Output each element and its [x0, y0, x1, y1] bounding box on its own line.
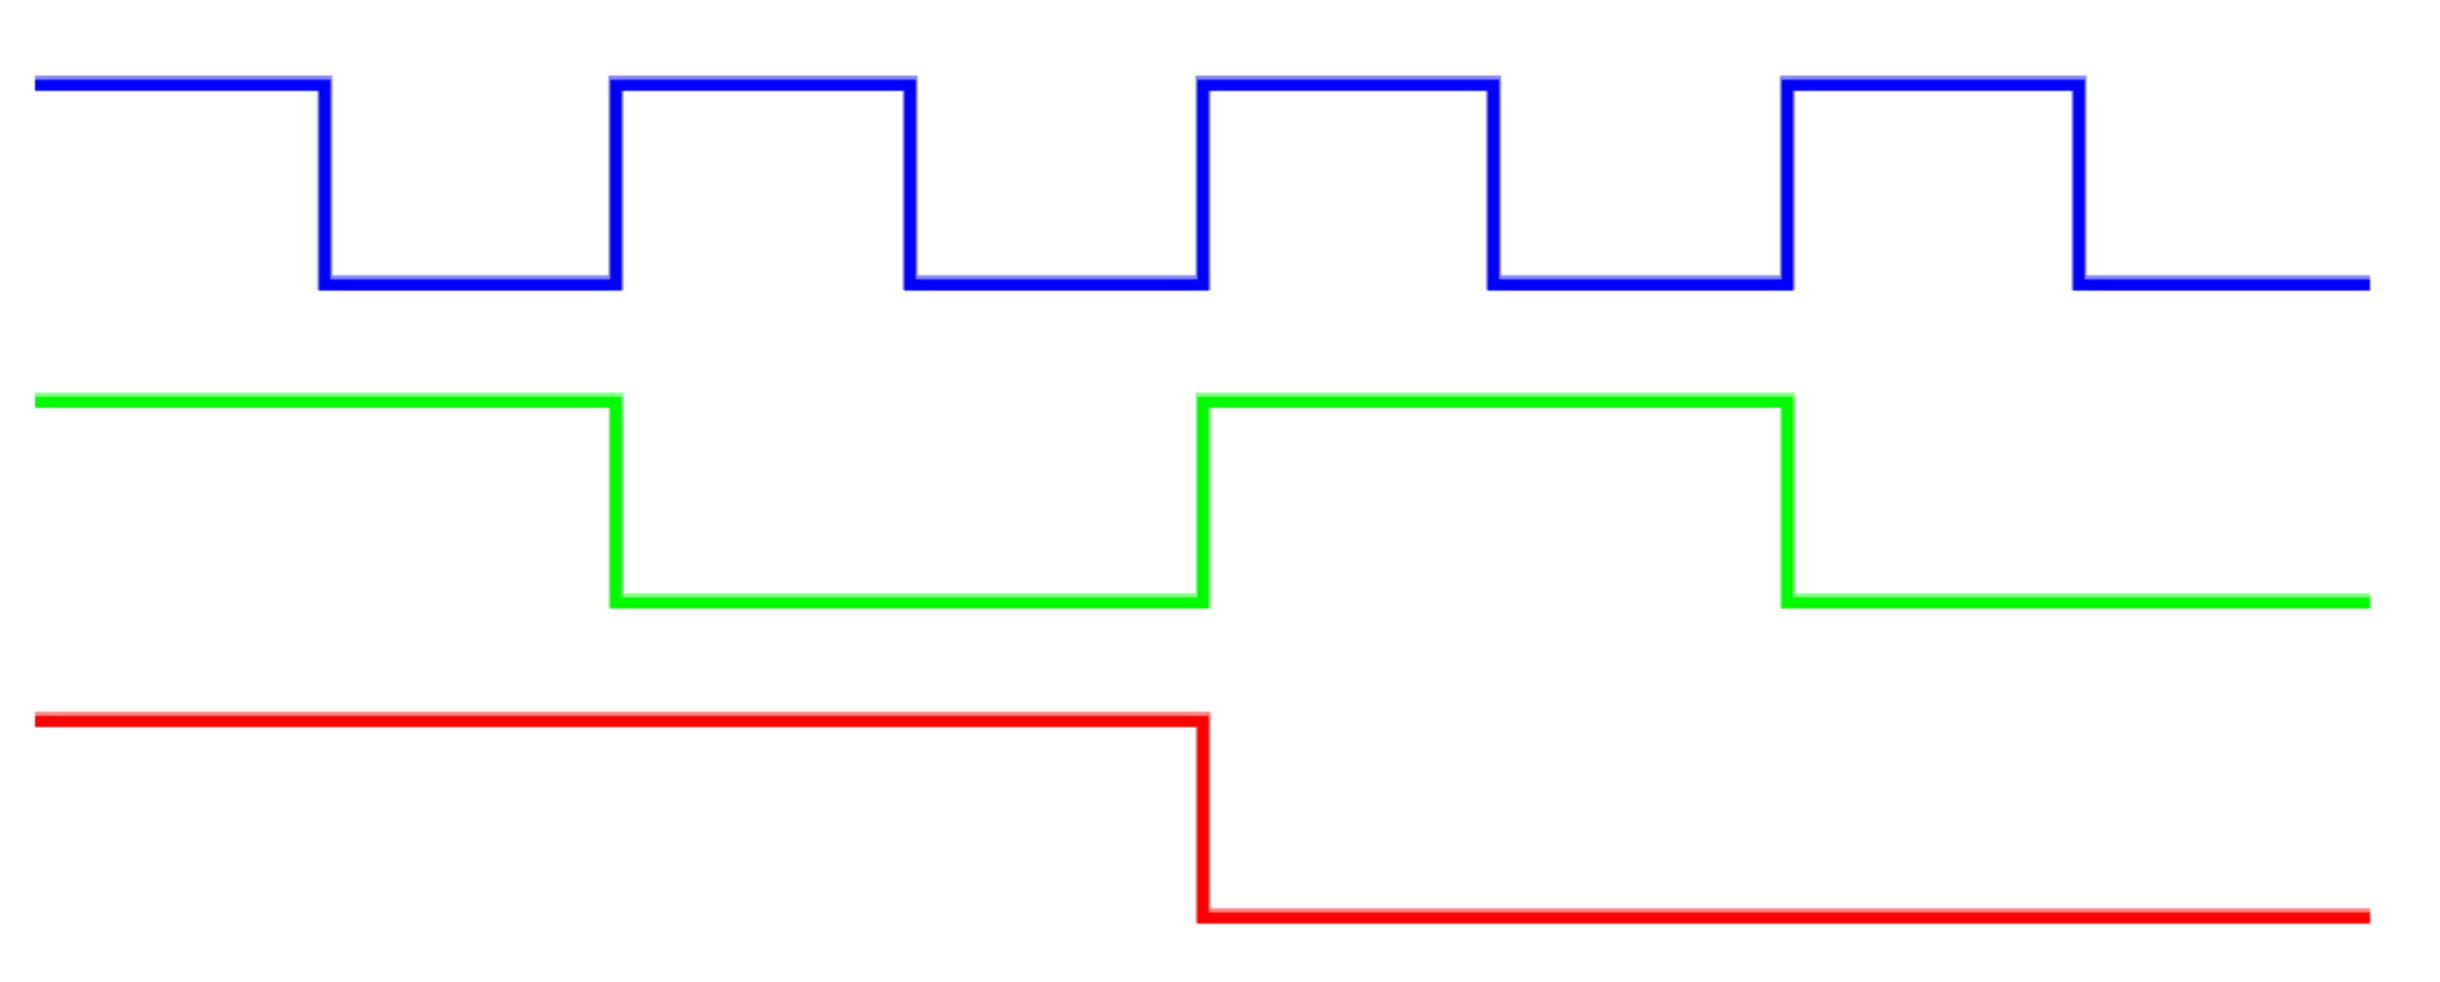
wire Q0 halo	[35, 400, 2370, 601]
wire CLK halo	[35, 83, 2370, 283]
wire Q1 (red divide-by-4)	[35, 722, 2370, 919]
wire Q1 halo	[35, 719, 2370, 916]
wire Q0 (green divide-by-2)	[35, 402, 2370, 603]
wire CLK (blue clock)	[35, 85, 2370, 285]
